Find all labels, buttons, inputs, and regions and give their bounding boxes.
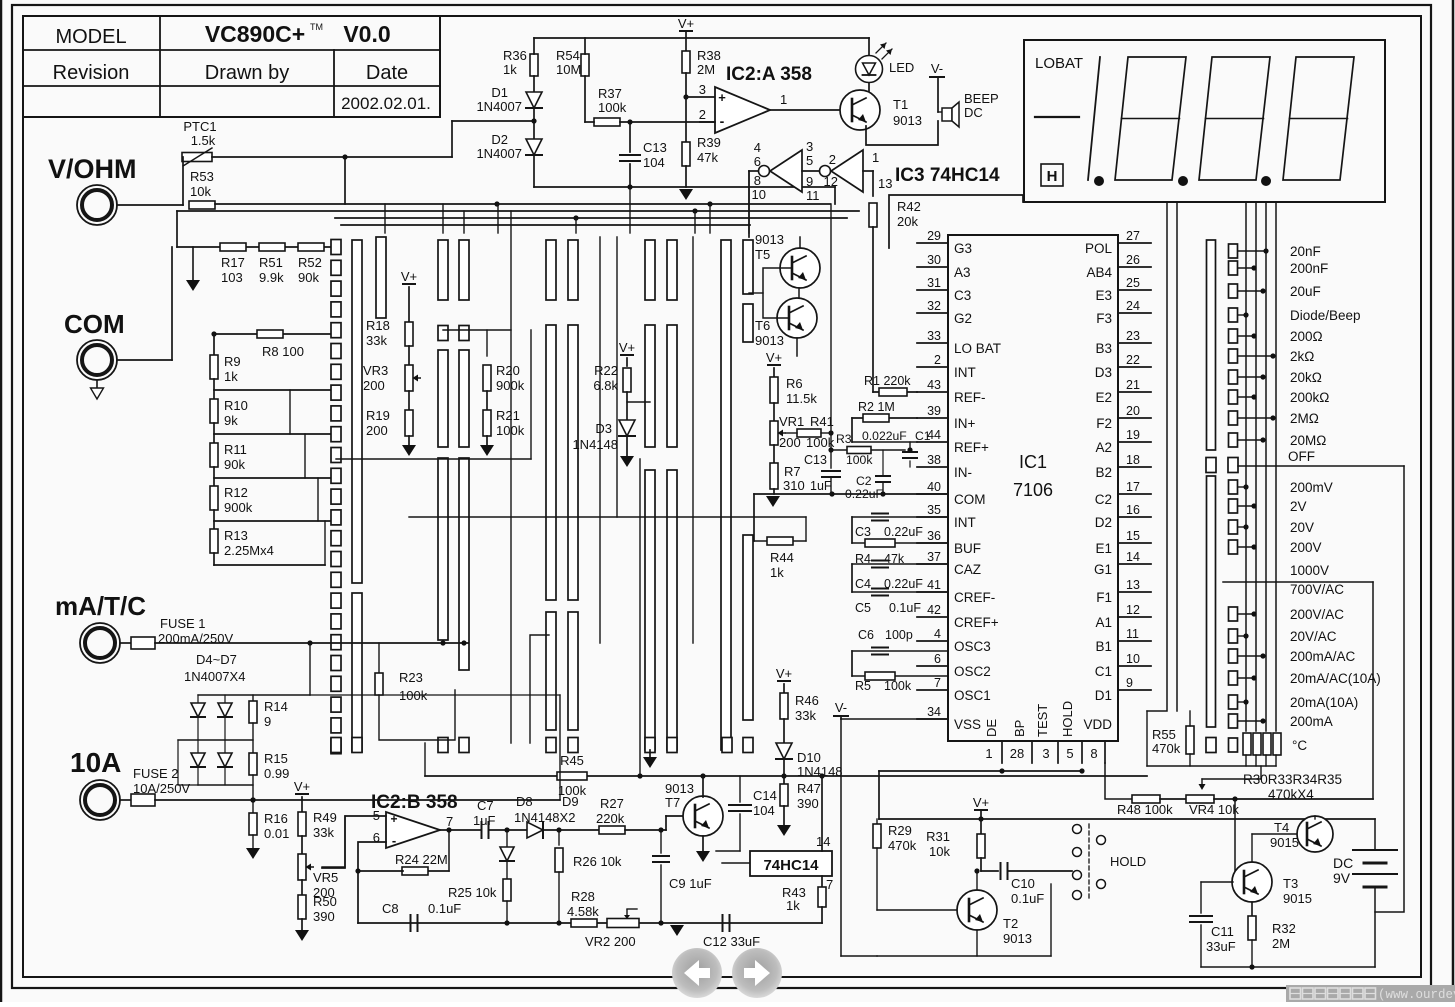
svg-text:33: 33 <box>927 329 941 343</box>
wire COM to divider <box>117 359 172 361</box>
svg-text:390: 390 <box>313 909 335 924</box>
resistor R16 <box>249 813 257 835</box>
svg-text:V+: V+ <box>619 340 635 355</box>
svg-text:D1: D1 <box>1095 688 1112 703</box>
capacitor C14 <box>739 776 741 802</box>
svg-text:C8: C8 <box>382 901 399 916</box>
svg-text:34: 34 <box>927 705 941 719</box>
resistor R17 <box>220 243 246 251</box>
resistor R53 <box>189 201 215 209</box>
svg-text:33k: 33k <box>795 708 816 723</box>
wire gate B input right <box>863 170 873 172</box>
svg-text:OSC2: OSC2 <box>954 664 991 679</box>
resistor R10 <box>210 399 218 423</box>
svg-text:C6: C6 <box>858 628 874 642</box>
svg-text:F3: F3 <box>1096 311 1112 326</box>
svg-text:C12 33uF: C12 33uF <box>703 934 760 949</box>
resistor R4 47k <box>852 542 948 544</box>
wire output <box>440 829 481 831</box>
IC1 left pin 4 OSC3 <box>917 640 948 642</box>
svg-text:LED: LED <box>889 60 914 75</box>
svg-text:(www.ourdev.cn): (www.ourdev.cn) <box>1378 988 1455 1002</box>
jack V/OHM <box>77 185 117 225</box>
svg-text:200: 200 <box>366 423 388 438</box>
LCD digit 3 <box>1283 57 1354 180</box>
IC1 left pin 7 OSC1 <box>917 689 948 691</box>
switch contact column A <box>331 240 341 255</box>
resistor R22 <box>623 368 631 392</box>
wire pin7 down <box>821 876 823 887</box>
svg-text:1uF: 1uF <box>810 479 832 493</box>
transistor T4 9015 <box>1297 816 1333 852</box>
svg-text:104: 104 <box>643 155 665 170</box>
svg-text:200mA: 200mA <box>1290 714 1333 729</box>
svg-text:V-: V- <box>931 61 943 76</box>
range row °C <box>1229 738 1238 752</box>
svg-text:0.22uF: 0.22uF <box>884 525 923 539</box>
svg-text:A3: A3 <box>954 265 971 280</box>
capacitor C9 <box>660 830 662 853</box>
range row 200V/AC <box>1229 607 1238 621</box>
svg-text:9013: 9013 <box>893 113 922 128</box>
svg-text:R54: R54 <box>556 48 580 63</box>
resistor R32 <box>1251 902 1253 916</box>
range row 20MΩ <box>1229 433 1238 447</box>
resistor R25 <box>506 861 508 878</box>
switch bar E x464 <box>459 240 469 300</box>
wire R32 down <box>1251 940 1253 967</box>
svg-text:14: 14 <box>816 834 830 849</box>
wire pin3-R39 <box>685 97 687 142</box>
T5 collector wire <box>799 237 801 248</box>
IC1 right pin 19 A2 <box>1118 441 1151 443</box>
wire R13 bottom <box>213 553 215 565</box>
range row 2kΩ <box>1229 349 1238 363</box>
LCD display box <box>1024 40 1385 202</box>
IC1 left pin 2 INT <box>917 366 948 368</box>
svg-text:39: 39 <box>927 404 941 418</box>
resistor R9 <box>210 355 218 379</box>
T6 emitter down <box>796 338 798 356</box>
switch bar G x573 <box>568 240 578 300</box>
IC1 left pin 43 REF- <box>917 391 948 393</box>
svg-text:+: + <box>718 90 726 105</box>
wire to T3 base <box>1233 799 1235 882</box>
svg-text:10: 10 <box>1126 652 1140 666</box>
resistor R1 220k <box>873 391 917 393</box>
svg-text:V-: V- <box>835 700 847 715</box>
IC1 left pin 40 COM <box>917 493 948 495</box>
svg-text:-: - <box>392 833 396 848</box>
wire bus y225 <box>341 224 750 226</box>
wire bus bottom join <box>1245 755 1247 766</box>
svg-text:DC: DC <box>1333 855 1353 871</box>
svg-text:D2: D2 <box>1095 515 1112 530</box>
svg-text:R32: R32 <box>1272 921 1296 936</box>
svg-text:C13: C13 <box>643 140 667 155</box>
range row 2MΩ <box>1229 411 1238 425</box>
range row 200mA/AC <box>1229 649 1238 663</box>
resistor R37 <box>594 118 620 126</box>
bracket C4 C5 <box>851 564 853 592</box>
svg-text:HOLD: HOLD <box>1110 854 1146 869</box>
svg-text:13: 13 <box>1126 578 1140 592</box>
T4 wires <box>1314 816 1316 819</box>
T5 T6 base bracket <box>763 268 792 318</box>
range row 200V <box>1229 540 1238 554</box>
IC1 left pin 31 C3 <box>917 289 948 291</box>
svg-text:1N4007: 1N4007 <box>476 146 522 161</box>
resistor R41 <box>797 429 821 437</box>
wire long y776 <box>425 775 1147 777</box>
svg-text:mA/T/C: mA/T/C <box>55 591 146 621</box>
switch bar H x650 <box>645 240 655 300</box>
svg-text:29: 29 <box>927 229 941 243</box>
left long wire x1167 <box>1147 202 1167 711</box>
wire REF+ row <box>852 441 917 443</box>
svg-text:VR1: VR1 <box>779 414 804 429</box>
diode D9 vertical <box>506 830 508 846</box>
svg-text:B3: B3 <box>1095 341 1112 356</box>
svg-text:VSS: VSS <box>954 717 981 732</box>
long vertical wire x617 <box>616 237 618 517</box>
svg-text:470k: 470k <box>1152 741 1181 756</box>
svg-text:C3: C3 <box>954 288 971 303</box>
svg-text:11: 11 <box>806 188 820 203</box>
svg-text:37: 37 <box>927 550 941 564</box>
svg-text:900k: 900k <box>496 378 525 393</box>
arrow on y923 <box>670 925 684 936</box>
svg-text:E3: E3 <box>1095 288 1112 303</box>
resistor R54 <box>581 54 589 76</box>
long vertical wire x511 <box>510 211 512 743</box>
LCD symbol H <box>1041 164 1063 186</box>
feedback R24 <box>448 830 450 871</box>
svg-text:R14: R14 <box>264 699 288 714</box>
svg-text:C9 1uF: C9 1uF <box>669 876 712 891</box>
svg-text:1N4007X4: 1N4007X4 <box>184 669 245 684</box>
T2 wires <box>876 848 878 910</box>
resistor R48 <box>1132 795 1160 803</box>
resistor R23 <box>378 643 380 673</box>
svg-text:1: 1 <box>872 150 879 165</box>
svg-text:9.9k: 9.9k <box>259 270 284 285</box>
svg-text:D4~D7: D4~D7 <box>196 652 237 667</box>
svg-text:R9: R9 <box>224 354 241 369</box>
resistor R50 <box>301 880 303 895</box>
svg-text:R39: R39 <box>697 135 721 150</box>
svg-text:9013: 9013 <box>1003 931 1032 946</box>
IC1 right pin 11 B1 <box>1118 640 1151 642</box>
svg-text:20uF: 20uF <box>1290 284 1321 299</box>
svg-text:FUSE 1: FUSE 1 <box>160 616 206 631</box>
arrow under R47 <box>783 806 785 825</box>
IC 74HC14 box <box>750 851 832 876</box>
vertical x831 from bus to COM <box>830 204 832 468</box>
wire R48 to VR4 <box>1160 798 1186 800</box>
switch bar right column <box>1207 240 1216 450</box>
svg-text:1uF: 1uF <box>473 813 495 828</box>
wire VR5 wiper to pin5 <box>322 866 345 868</box>
svg-text:MODEL: MODEL <box>55 26 126 48</box>
wire R36 to D1 <box>533 76 535 92</box>
wire R27 to T7 <box>625 829 666 831</box>
bottom wire y967 <box>1201 966 1375 968</box>
resistor R28 <box>571 919 597 927</box>
svg-text:IC1: IC1 <box>1019 452 1047 472</box>
svg-text:Drawn by: Drawn by <box>205 62 289 84</box>
long vertical wire x693 <box>692 237 694 643</box>
wire bus y204 <box>215 203 830 205</box>
range bus vertical lines <box>1245 202 1247 731</box>
potentiometer VR2 <box>607 919 639 928</box>
arrow under D3 <box>626 436 628 456</box>
wire D1 to D2 <box>533 108 535 139</box>
resistor R3 100k <box>831 449 905 451</box>
diode D10 <box>776 743 792 759</box>
wire pin6 <box>358 842 386 923</box>
long vertical wire x600 <box>599 237 601 643</box>
switch bar K x748 <box>743 240 753 294</box>
title block table <box>23 16 440 117</box>
inverter IC3 gate A <box>770 150 802 192</box>
wire left drop x177 <box>176 211 178 247</box>
svg-text:3: 3 <box>1042 746 1049 761</box>
resistor R8 <box>257 330 283 338</box>
svg-text:700V/AC: 700V/AC <box>1290 582 1344 597</box>
svg-text:4: 4 <box>934 627 941 641</box>
svg-text:R48 100k: R48 100k <box>1117 802 1173 817</box>
svg-text:2M: 2M <box>1272 936 1290 951</box>
svg-text:B2: B2 <box>1095 465 1112 480</box>
IC1 left pin 34 VSS <box>917 718 948 720</box>
resistor R49 <box>301 800 303 812</box>
svg-text:R53: R53 <box>190 169 214 184</box>
resistor R12 <box>210 486 218 510</box>
svg-text:36: 36 <box>927 529 941 543</box>
capacitor C10 <box>1000 863 1002 879</box>
wire y771 pins <box>879 770 1082 772</box>
svg-text:R5: R5 <box>855 679 871 693</box>
range row 20V <box>1229 520 1238 534</box>
svg-text:LOBAT: LOBAT <box>1035 55 1083 72</box>
svg-text:200nF: 200nF <box>1290 261 1328 276</box>
svg-text:32: 32 <box>927 299 941 313</box>
ground arrow under R7 <box>766 496 780 507</box>
svg-text:18: 18 <box>1126 453 1140 467</box>
svg-text:E2: E2 <box>1095 390 1112 405</box>
wire R31 to C10 <box>980 858 982 871</box>
R23 bottom wires <box>379 690 455 740</box>
svg-text:R27: R27 <box>600 796 624 811</box>
svg-text:40: 40 <box>927 480 941 494</box>
potentiometer VR4 <box>1186 795 1214 803</box>
IC1 left pin 42 CREF+ <box>917 616 948 618</box>
svg-text:2.25Mx4: 2.25Mx4 <box>224 543 274 558</box>
svg-text:A2: A2 <box>1095 440 1112 455</box>
jog wire x530 to bar F <box>530 635 549 743</box>
svg-text:R20: R20 <box>496 363 520 378</box>
wire junction drop x345 <box>344 157 346 204</box>
range row 200mV <box>1229 480 1238 494</box>
svg-text:R18: R18 <box>366 318 390 333</box>
svg-text:6.8k: 6.8k <box>593 378 618 393</box>
bridge diodes D6 D7 <box>197 740 199 752</box>
resistor R43 <box>818 887 826 907</box>
svg-text:A1: A1 <box>1095 615 1112 630</box>
svg-text:IN-: IN- <box>954 465 972 480</box>
svg-text:C13: C13 <box>804 453 827 467</box>
range row 200Ω <box>1229 329 1238 343</box>
svg-text:100k: 100k <box>496 423 525 438</box>
resistor R52 <box>298 243 324 251</box>
svg-text:2kΩ: 2kΩ <box>1290 349 1314 364</box>
wire R8 row <box>214 333 331 335</box>
svg-text:R29: R29 <box>888 823 912 838</box>
svg-text:200mA/250V: 200mA/250V <box>158 631 233 646</box>
resistor R42 <box>869 203 877 227</box>
svg-text:INT: INT <box>954 365 976 380</box>
transistor T5 9013 <box>780 248 820 288</box>
svg-text:200Ω: 200Ω <box>1290 329 1323 344</box>
R55 wires <box>1189 711 1191 726</box>
svg-text:R38: R38 <box>697 48 721 63</box>
resistor R51 <box>259 243 285 251</box>
svg-text:R50: R50 <box>313 894 337 909</box>
svg-text:3: 3 <box>699 82 706 97</box>
wire fuse2 right <box>559 695 561 800</box>
svg-text:100k: 100k <box>399 688 428 703</box>
switch bar I x672 <box>667 240 677 300</box>
svg-text:5: 5 <box>1066 746 1073 761</box>
svg-text:9: 9 <box>1126 676 1133 690</box>
wire T1 emitter to beeper <box>866 121 938 145</box>
svg-text:103: 103 <box>221 270 243 285</box>
svg-text:2MΩ: 2MΩ <box>1290 411 1319 426</box>
range row 20uF <box>1229 284 1238 298</box>
diode D2 1N4007 <box>526 139 542 155</box>
svg-text:20V/AC: 20V/AC <box>1290 629 1337 644</box>
svg-text:1: 1 <box>985 746 992 761</box>
LCD decimal points <box>1094 176 1104 186</box>
svg-text:REF+: REF+ <box>954 440 989 455</box>
svg-text:B1: B1 <box>1095 639 1112 654</box>
svg-text:R10: R10 <box>224 398 248 413</box>
svg-text:100k: 100k <box>598 100 627 115</box>
capacitor C1 <box>909 442 911 450</box>
svg-text:DC: DC <box>964 105 983 120</box>
svg-text:19: 19 <box>1126 428 1140 442</box>
svg-text:200V/AC: 200V/AC <box>1290 607 1344 622</box>
resistor R44 <box>754 540 806 542</box>
svg-text:R41: R41 <box>810 414 834 429</box>
svg-text:900k: 900k <box>224 500 253 515</box>
svg-text:10A: 10A <box>70 747 121 778</box>
svg-text:R36: R36 <box>503 48 527 63</box>
svg-text:20MΩ: 20MΩ <box>1290 433 1326 448</box>
svg-text:REF-: REF- <box>954 390 986 405</box>
svg-text:1k: 1k <box>224 369 238 384</box>
svg-text:C1: C1 <box>1095 664 1112 679</box>
svg-text:R55: R55 <box>1152 727 1176 742</box>
svg-text:CREF+: CREF+ <box>954 615 999 630</box>
svg-text:D3: D3 <box>595 421 612 436</box>
switch bar C x381 <box>376 237 386 318</box>
range row 20mA/AC(10A) <box>1229 671 1238 685</box>
svg-text:AB4: AB4 <box>1086 265 1112 280</box>
svg-text:HOLD: HOLD <box>1060 701 1075 737</box>
svg-text:D3: D3 <box>1095 365 1112 380</box>
T3 bottom wires <box>1251 902 1253 918</box>
transistor T2 9013 <box>957 890 997 930</box>
capacitor C13 top <box>629 122 631 152</box>
svg-text:V/OHM: V/OHM <box>48 154 137 184</box>
T7 collector <box>702 776 704 797</box>
wire drops into matrix <box>384 204 386 233</box>
IC1 left pin 41 CREF- <box>917 591 948 593</box>
wire R54 down to R37 line <box>584 76 586 122</box>
svg-text:V+: V+ <box>973 795 989 810</box>
IC1 right pin 16 D2 <box>1118 516 1151 518</box>
svg-text:31: 31 <box>927 276 941 290</box>
svg-text:VC890C+: VC890C+ <box>205 21 305 47</box>
capacitor C5 0.1uF <box>852 591 948 593</box>
jack COM <box>77 340 117 380</box>
svg-text:9: 9 <box>806 174 813 189</box>
wire PTC to D2 drop <box>212 156 452 158</box>
resistor R18 <box>405 322 413 346</box>
long horizontal wire y517 <box>409 516 806 518</box>
open arrow below COM jack <box>96 380 98 388</box>
T7 emitter gnd <box>702 836 704 851</box>
svg-text:V0.0: V0.0 <box>343 21 390 47</box>
svg-text:30: 30 <box>927 253 941 267</box>
resistor R47 <box>783 776 785 784</box>
svg-text:22: 22 <box>1126 353 1140 367</box>
svg-text:20mA/AC(10A): 20mA/AC(10A) <box>1290 671 1381 686</box>
range row 20mA(10A) <box>1229 695 1238 709</box>
svg-text:4.58k: 4.58k <box>567 904 599 919</box>
IC1 left pin 30 A3 <box>917 266 948 268</box>
IC1 right pin 12 A1 <box>1118 616 1151 618</box>
svg-text:CREF-: CREF- <box>954 590 995 605</box>
svg-text:C2: C2 <box>856 474 872 488</box>
svg-text:TEST: TEST <box>1035 704 1050 737</box>
svg-text:27: 27 <box>1126 229 1140 243</box>
svg-text:1.5k: 1.5k <box>191 133 216 148</box>
svg-text:90k: 90k <box>224 457 245 472</box>
svg-text:33k: 33k <box>366 333 387 348</box>
IC1 right pin 27 POL <box>1118 242 1151 244</box>
IC1 right pin 23 B3 <box>1118 342 1151 344</box>
wire R25 to C8 line <box>506 901 508 923</box>
capacitor C8 <box>410 915 412 931</box>
wire bus y211 <box>177 210 859 212</box>
svg-text:23: 23 <box>1126 329 1140 343</box>
svg-text:C14: C14 <box>753 788 777 803</box>
resistor R39 <box>682 142 690 166</box>
svg-text:6: 6 <box>934 652 941 666</box>
svg-text:H: H <box>1047 168 1058 185</box>
svg-text:24: 24 <box>1126 299 1140 313</box>
IC1 right pin 13 F1 <box>1118 591 1151 593</box>
svg-text:V+: V+ <box>776 666 792 681</box>
switch bar J x726 <box>721 240 731 750</box>
svg-text:T4: T4 <box>1274 820 1289 835</box>
svg-text:10k: 10k <box>929 844 950 859</box>
wire D1D2 junction to left <box>452 120 534 122</box>
wire lcd link <box>889 195 1023 248</box>
